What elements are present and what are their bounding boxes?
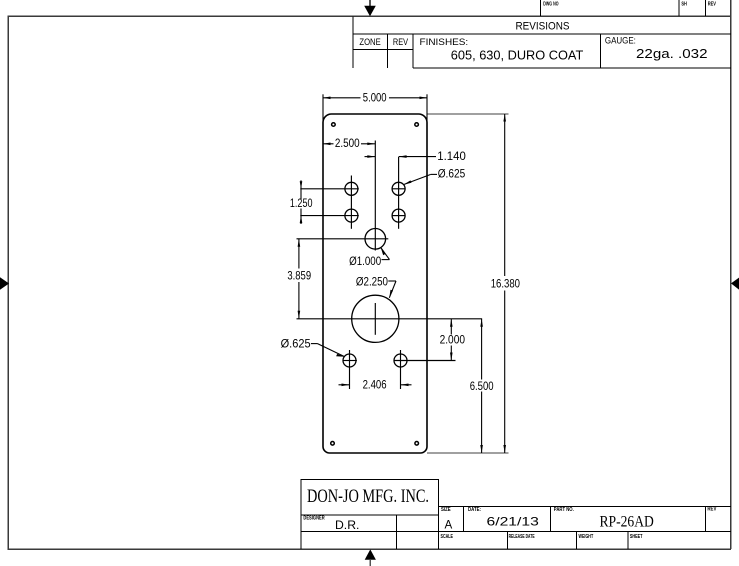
svg-text:DON-JO MFG. INC.: DON-JO MFG. INC. (307, 486, 429, 507)
hole A2 Ø.625 (392, 182, 405, 195)
centerline row1 right hole (392, 188, 406, 190)
dimension 2.500 (323, 143, 375, 146)
hole A1 Ø.625 (345, 182, 358, 195)
svg-text:DWG NO: DWG NO (543, 2, 559, 8)
svg-text:2.406: 2.406 (363, 378, 387, 391)
svg-text:6/21/13: 6/21/13 (487, 516, 539, 529)
svg-text:REV: REV (707, 507, 716, 513)
svg-text:FINISHES:: FINISHES: (420, 37, 469, 47)
don-jo right edge extension (438, 515, 440, 549)
svg-text:REV: REV (393, 37, 409, 47)
finishes cell bottom (413, 67, 731, 69)
svg-text:REVISIONS: REVISIONS (516, 21, 570, 33)
svg-text:DESIGNER: DESIGNER (303, 516, 324, 522)
svg-text:D.R.: D.R. (335, 519, 359, 532)
centerline left hole column (350, 176, 352, 229)
svg-text:REV: REV (708, 1, 716, 7)
right centering arrow (731, 278, 739, 290)
svg-text:Ø.625: Ø.625 (438, 168, 466, 181)
svg-text:A: A (445, 519, 453, 532)
dimension 5.000 (323, 94, 427, 120)
svg-text:6.500: 6.500 (470, 380, 494, 393)
dimension 1.250 (300, 180, 303, 224)
centerline row2 right hole (392, 215, 406, 217)
leader Ø.625 top (404, 174, 438, 184)
hole D1 horizontal centerline (343, 360, 357, 362)
hole B Ø1.000 (365, 229, 386, 250)
svg-text:605, 630, DURO COAT: 605, 630, DURO COAT (451, 49, 584, 63)
hole B horizontal centerline / 3.859 ref (297, 238, 389, 240)
hole C vertical centerline (374, 303, 376, 335)
scale cell right (506, 531, 508, 549)
releasedate cell right (575, 531, 577, 549)
hole A3 Ø.625 (345, 209, 358, 222)
svg-text:WEIGHT: WEIGHT (579, 534, 594, 540)
rev/finishes divider (412, 34, 414, 68)
leader Ø1.000 (381, 248, 390, 260)
dimension 2.406 (339, 384, 412, 387)
screw hole bottom right (415, 442, 419, 446)
plate outline (323, 114, 427, 453)
dimension 3.859 (298, 239, 301, 319)
sheet bottom border (8, 548, 732, 550)
zone rev underline (353, 49, 413, 51)
svg-text:PART NO.: PART NO. (554, 507, 574, 513)
title block: don-jo box (301, 479, 439, 515)
svg-text:RELEASE DATE: RELEASE DATE (509, 534, 535, 540)
svg-text:1.250: 1.250 (290, 197, 313, 210)
hole C horizontal centerline / datum line (297, 318, 483, 320)
svg-text:Ø1.000: Ø1.000 (349, 255, 381, 268)
screw hole bottom left (331, 442, 335, 446)
svg-text:GAUGE:: GAUGE: (605, 36, 636, 46)
date cell right (550, 506, 552, 531)
hole D2 vertical centerline (400, 350, 402, 389)
revisions header underline (353, 33, 731, 35)
partno cell right (704, 506, 706, 531)
size/date/partno row top (439, 505, 731, 507)
svg-text:SCALE: SCALE (441, 534, 454, 540)
svg-text:RP-26AD: RP-26AD (600, 514, 654, 531)
svg-text:1.140: 1.140 (437, 150, 466, 163)
title block left column verticals (300, 515, 302, 549)
top centering arrow (364, 0, 376, 16)
dimension 2.000 (450, 319, 453, 361)
svg-text:DATE:: DATE: (468, 507, 481, 513)
finishes gauge divider (600, 34, 602, 68)
zone/rev divider (386, 34, 388, 68)
dwg-no strip divider REV (704, 0, 706, 16)
hole C Ø2.250 (352, 295, 399, 342)
screw hole top left (332, 123, 336, 127)
svg-text:3.859: 3.859 (287, 269, 311, 282)
dimension 16.380 (427, 114, 509, 453)
weight cell right (627, 531, 629, 549)
svg-text:5.000: 5.000 (363, 92, 387, 105)
svg-text:22ga. .032: 22ga. .032 (636, 47, 708, 61)
designer cell divider (396, 515, 398, 549)
bottom centering arrow (365, 549, 376, 566)
svg-text:SH: SH (681, 1, 687, 7)
svg-text:Ø2.250: Ø2.250 (356, 275, 388, 288)
hole D1 vertical centerline (349, 350, 351, 389)
size cell right (463, 506, 465, 531)
centerline row1 left stub (300, 188, 359, 190)
svg-text:2.000: 2.000 (440, 334, 465, 347)
dimension 6.500 (480, 319, 483, 453)
centerline row2 left stub (300, 215, 359, 217)
dwg-no strip divider left (540, 0, 542, 16)
designer row underline (301, 530, 731, 532)
sheet top border (8, 15, 732, 17)
hole D2 Ø.625 bottom right (394, 354, 407, 367)
svg-text:SHEET: SHEET (630, 534, 643, 540)
dimension 1.140 (365, 155, 437, 158)
svg-text:2.500: 2.500 (335, 137, 360, 150)
revisions box left edge (352, 16, 354, 67)
svg-text:Ø.625: Ø.625 (281, 338, 311, 351)
left centering arrow (0, 277, 9, 290)
hole D1 Ø.625 bottom left (343, 354, 356, 367)
leader Ø2.250 (388, 281, 396, 298)
centerline right hole column (398, 157, 400, 229)
hole A4 Ø.625 (392, 209, 405, 222)
hole D2 horizontal centerline / 2.000 ref (394, 360, 456, 362)
leader Ø.625 bottom (311, 344, 345, 357)
sheet left border (7, 16, 9, 549)
svg-text:ZONE: ZONE (359, 37, 380, 47)
plate vertical centerline (374, 141, 376, 251)
screw hole top right (415, 123, 419, 127)
dwg-no strip divider SH (678, 0, 680, 16)
svg-text:16.380: 16.380 (491, 278, 520, 291)
svg-text:SIZE: SIZE (441, 507, 451, 513)
sheet right border (730, 0, 732, 549)
